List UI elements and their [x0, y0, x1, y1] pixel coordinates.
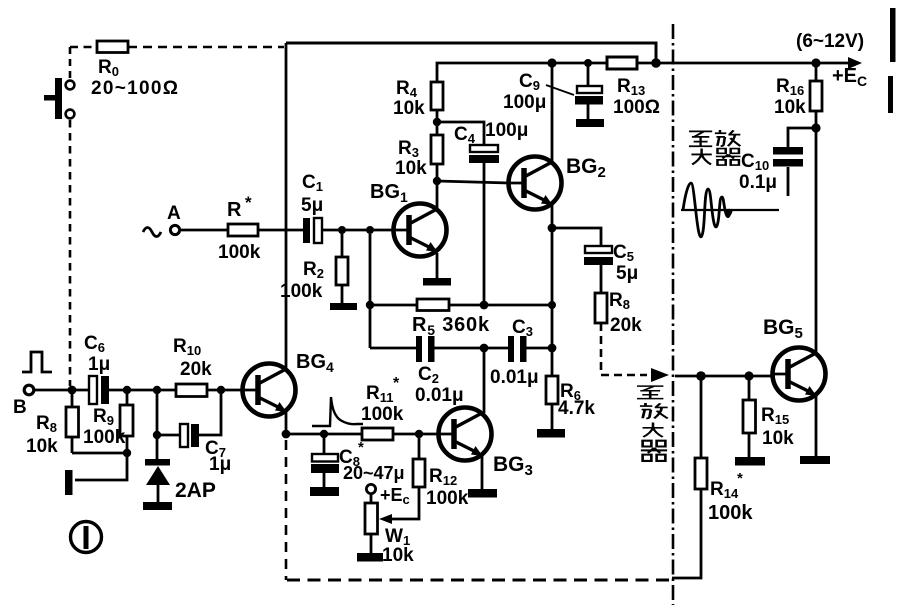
wire C3 to emitter line: [526, 347, 552, 350]
resistor R11: [361, 375, 404, 440]
capacitor C7 branch: [199, 390, 221, 435]
ground R6: [537, 429, 565, 438]
node R10 right: [217, 386, 225, 394]
svg-text:*: *: [737, 470, 743, 487]
node C9 on rail: [584, 59, 592, 67]
transistor BG1: [393, 204, 447, 257]
ground input bar: [65, 470, 73, 495]
transistor BG2: [508, 157, 562, 210]
wire BG2 collector: [551, 63, 554, 161]
resistor R3: [395, 135, 443, 179]
potentiometer W1: [365, 494, 414, 566]
capacitor C5: [584, 242, 638, 284]
ground C9: [576, 119, 604, 127]
resistor R8 input: [26, 390, 79, 457]
wire R* to C1: [258, 229, 303, 232]
wire BG2 emitter down: [551, 205, 554, 348]
svg-text:20~47μ: 20~47μ: [343, 463, 405, 483]
resistor R13: [607, 57, 660, 118]
svg-text:*: *: [245, 193, 252, 212]
wire left dashed vertical upper: [69, 47, 72, 79]
svg-text:R5 360k: R5 360k: [412, 314, 490, 338]
print mark top right: [890, 8, 896, 62]
wiper arrow W1: [379, 487, 419, 524]
ground R2: [330, 303, 357, 310]
node R13 right: [651, 58, 661, 68]
wire C1 to BG1 base: [322, 229, 395, 232]
wire C6 to BG4 base: [109, 389, 176, 392]
svg-text:10k: 10k: [395, 158, 427, 179]
ground C8: [310, 487, 339, 496]
svg-text:4.7k: 4.7k: [558, 398, 595, 419]
transistor BG3: [438, 408, 492, 461]
label BG4: [296, 351, 334, 375]
wire A to R*: [180, 229, 228, 232]
node R16 top on rail: [811, 58, 820, 67]
node feedback left: [366, 301, 374, 309]
node C4 bottom on rail: [480, 301, 489, 310]
node BG2 collector on rail: [547, 58, 556, 67]
capacitor C5 branch: [552, 228, 601, 246]
wire R8 dashed output right: [601, 374, 647, 377]
capacitor C4: [454, 120, 528, 163]
print mark right: [888, 76, 893, 113]
node BG3 collector junction: [480, 344, 489, 353]
svg-text:20k: 20k: [180, 359, 212, 380]
node R9 top: [123, 386, 131, 394]
svg-text:2AP: 2AP: [175, 479, 216, 502]
svg-text:10k: 10k: [393, 98, 425, 119]
svg-text:100Ω: 100Ω: [613, 97, 660, 118]
node BG4 emitter: [282, 430, 291, 439]
wire BG3 emitter: [481, 456, 484, 489]
wire BG3 collector riser: [483, 348, 486, 413]
node R15 top: [744, 371, 753, 380]
input A sine symbol: [143, 228, 161, 237]
node A terminal: [167, 203, 181, 235]
diode 2AP: [145, 459, 216, 502]
ground BG3: [468, 489, 497, 498]
wire R8 R9 ground link: [72, 453, 127, 480]
svg-text:100μ: 100μ: [503, 92, 546, 113]
svg-text:100k: 100k: [708, 502, 753, 524]
svg-text:0.01μ: 0.01μ: [490, 367, 539, 388]
svg-text:*: *: [358, 439, 364, 456]
resistor R15: [743, 376, 794, 457]
label (6~12V): [796, 31, 864, 52]
switch contact top: [66, 81, 75, 90]
transistor BG5: [772, 348, 826, 401]
wire output to BG5 base: [675, 375, 772, 378]
switch contact bottom: [66, 110, 75, 119]
resistor R6: [546, 348, 595, 429]
wire dashed bottom rail: [287, 579, 672, 582]
svg-text:100k: 100k: [280, 281, 323, 302]
resistor R0: [91, 41, 179, 99]
wire C2 to node: [434, 347, 509, 350]
wire emitter rail y434: [286, 433, 362, 436]
wire C4 branch top: [437, 122, 484, 145]
svg-text:R: R: [227, 199, 242, 221]
resistor R5: [412, 299, 490, 338]
node C7 tap: [153, 431, 161, 439]
svg-text:10k: 10k: [762, 428, 794, 449]
resistor R*: [218, 193, 261, 263]
ground BG1 emitter: [423, 278, 451, 286]
node BG1 collector: [433, 177, 441, 185]
capacitor C3: [490, 317, 539, 388]
wire left dashed vertical lower: [69, 120, 72, 386]
node diode branch: [153, 386, 161, 394]
svg-text:10k: 10k: [774, 97, 806, 118]
svg-text:20k: 20k: [610, 315, 642, 336]
resistor R8: [595, 290, 642, 336]
capacitor C7: [180, 424, 231, 475]
capacitor C9: [503, 63, 603, 119]
wire R10 to BG4: [207, 389, 242, 392]
capacitor C1: [301, 172, 323, 243]
svg-text:100k: 100k: [83, 427, 126, 448]
transistor BG4: [242, 364, 296, 417]
wire BG4 emitter down: [285, 412, 288, 434]
wire dashed left box lower: [285, 440, 288, 580]
capacitor C8: [311, 434, 405, 487]
svg-text:0.01μ: 0.01μ: [415, 385, 464, 406]
wire R3 to BG1 collector node: [436, 164, 439, 181]
svg-text:100μ: 100μ: [485, 120, 528, 141]
wire rail y348 left: [370, 347, 417, 350]
node feedback tap: [366, 226, 374, 234]
svg-text:5μ: 5μ: [616, 263, 638, 284]
resistor R2: [280, 230, 348, 303]
node R4 R3 junction: [433, 118, 441, 126]
wire BG1 collector: [436, 181, 439, 208]
wire C7 to diode node: [157, 434, 180, 437]
svg-text:100k: 100k: [218, 242, 261, 263]
wire supply rail y63: [437, 57, 862, 82]
node B input terminal: [13, 385, 34, 418]
ground W1: [357, 553, 383, 562]
label BG2: [566, 155, 606, 181]
wire diode branch: [156, 390, 159, 460]
svg-text:10k: 10k: [26, 436, 58, 457]
resistor R4: [393, 78, 443, 119]
svg-text:10k: 10k: [382, 545, 414, 566]
node rail meets emitter line: [548, 301, 556, 309]
wire rail feedback y305 left: [370, 304, 417, 307]
svg-text:1μ: 1μ: [88, 354, 110, 375]
label BG5: [763, 316, 803, 342]
wire BG5 collector riser: [815, 128, 818, 352]
svg-text:B: B: [13, 397, 27, 418]
ground R15: [735, 457, 765, 466]
wire top dashed rail right of R0: [128, 46, 284, 49]
waveform damped oscillation: [681, 183, 779, 237]
svg-text:20~100Ω: 20~100Ω: [91, 78, 179, 99]
capacitor C2: [415, 336, 464, 406]
label BG3: [493, 453, 533, 479]
wire left vertical to BG4 collector: [285, 43, 288, 368]
resistor R10: [173, 336, 212, 397]
wire BG5 emitter: [815, 396, 818, 456]
label +Ec: [832, 65, 867, 89]
resistor R14: [672, 376, 753, 578]
figure number 1: [71, 522, 102, 553]
wire feedback vertical: [369, 234, 372, 348]
node R2 tap: [338, 226, 346, 234]
spike waveform symbol: [312, 397, 363, 426]
capacitor C6: [84, 333, 110, 404]
wire B to C6: [33, 389, 89, 392]
svg-text:*: *: [393, 375, 400, 392]
wire rail feedback y305 right: [449, 304, 552, 307]
wire top dashed rail left of R0: [70, 46, 97, 49]
wire top solid rail: [286, 43, 656, 61]
node BG2 emitter C5 tap: [548, 224, 557, 233]
label BG1: [370, 181, 408, 205]
svg-text:100k: 100k: [361, 404, 404, 425]
ground BG5: [800, 456, 830, 464]
wire BG1 emitter to ground: [436, 253, 439, 278]
resistor R12: [413, 434, 469, 509]
resistor R16: [774, 63, 822, 128]
wire chain boundary vertical: [672, 24, 675, 605]
wire R11 to BG3 base: [393, 433, 438, 436]
node R16 bottom: [811, 123, 820, 132]
wire R4 to node: [436, 110, 439, 135]
node +Ec terminal: [366, 484, 409, 507]
node B dashed junction: [68, 386, 77, 395]
svg-text:A: A: [167, 203, 181, 224]
svg-text:(6~12V): (6~12V): [796, 31, 864, 52]
arrow to amplifier: [651, 368, 669, 382]
ground 2AP: [143, 502, 172, 510]
node C8 tap: [320, 430, 328, 438]
wire R8 dashed output down: [600, 323, 603, 371]
wire C5 to R8: [600, 265, 603, 293]
wire C4 bottom to rail: [483, 163, 486, 305]
svg-text:5μ: 5μ: [301, 195, 323, 216]
svg-text:0.1μ: 0.1μ: [739, 172, 777, 193]
node R14 top: [696, 371, 706, 381]
resistor R9: [83, 390, 133, 453]
svg-text:100k: 100k: [426, 488, 469, 509]
label to-amplifier right column: [637, 386, 668, 461]
switch button bar: [44, 78, 62, 119]
wire BG1 collector to BG2 base: [437, 181, 510, 183]
pulse waveform symbol: [22, 352, 52, 372]
capacitor C10: [739, 128, 816, 196]
node BG3 base R12: [415, 430, 423, 438]
label to-amplifier top: [689, 130, 741, 165]
node R6 top: [548, 344, 557, 353]
node R8 R9 junction: [123, 449, 131, 457]
svg-text:1μ: 1μ: [209, 454, 231, 475]
